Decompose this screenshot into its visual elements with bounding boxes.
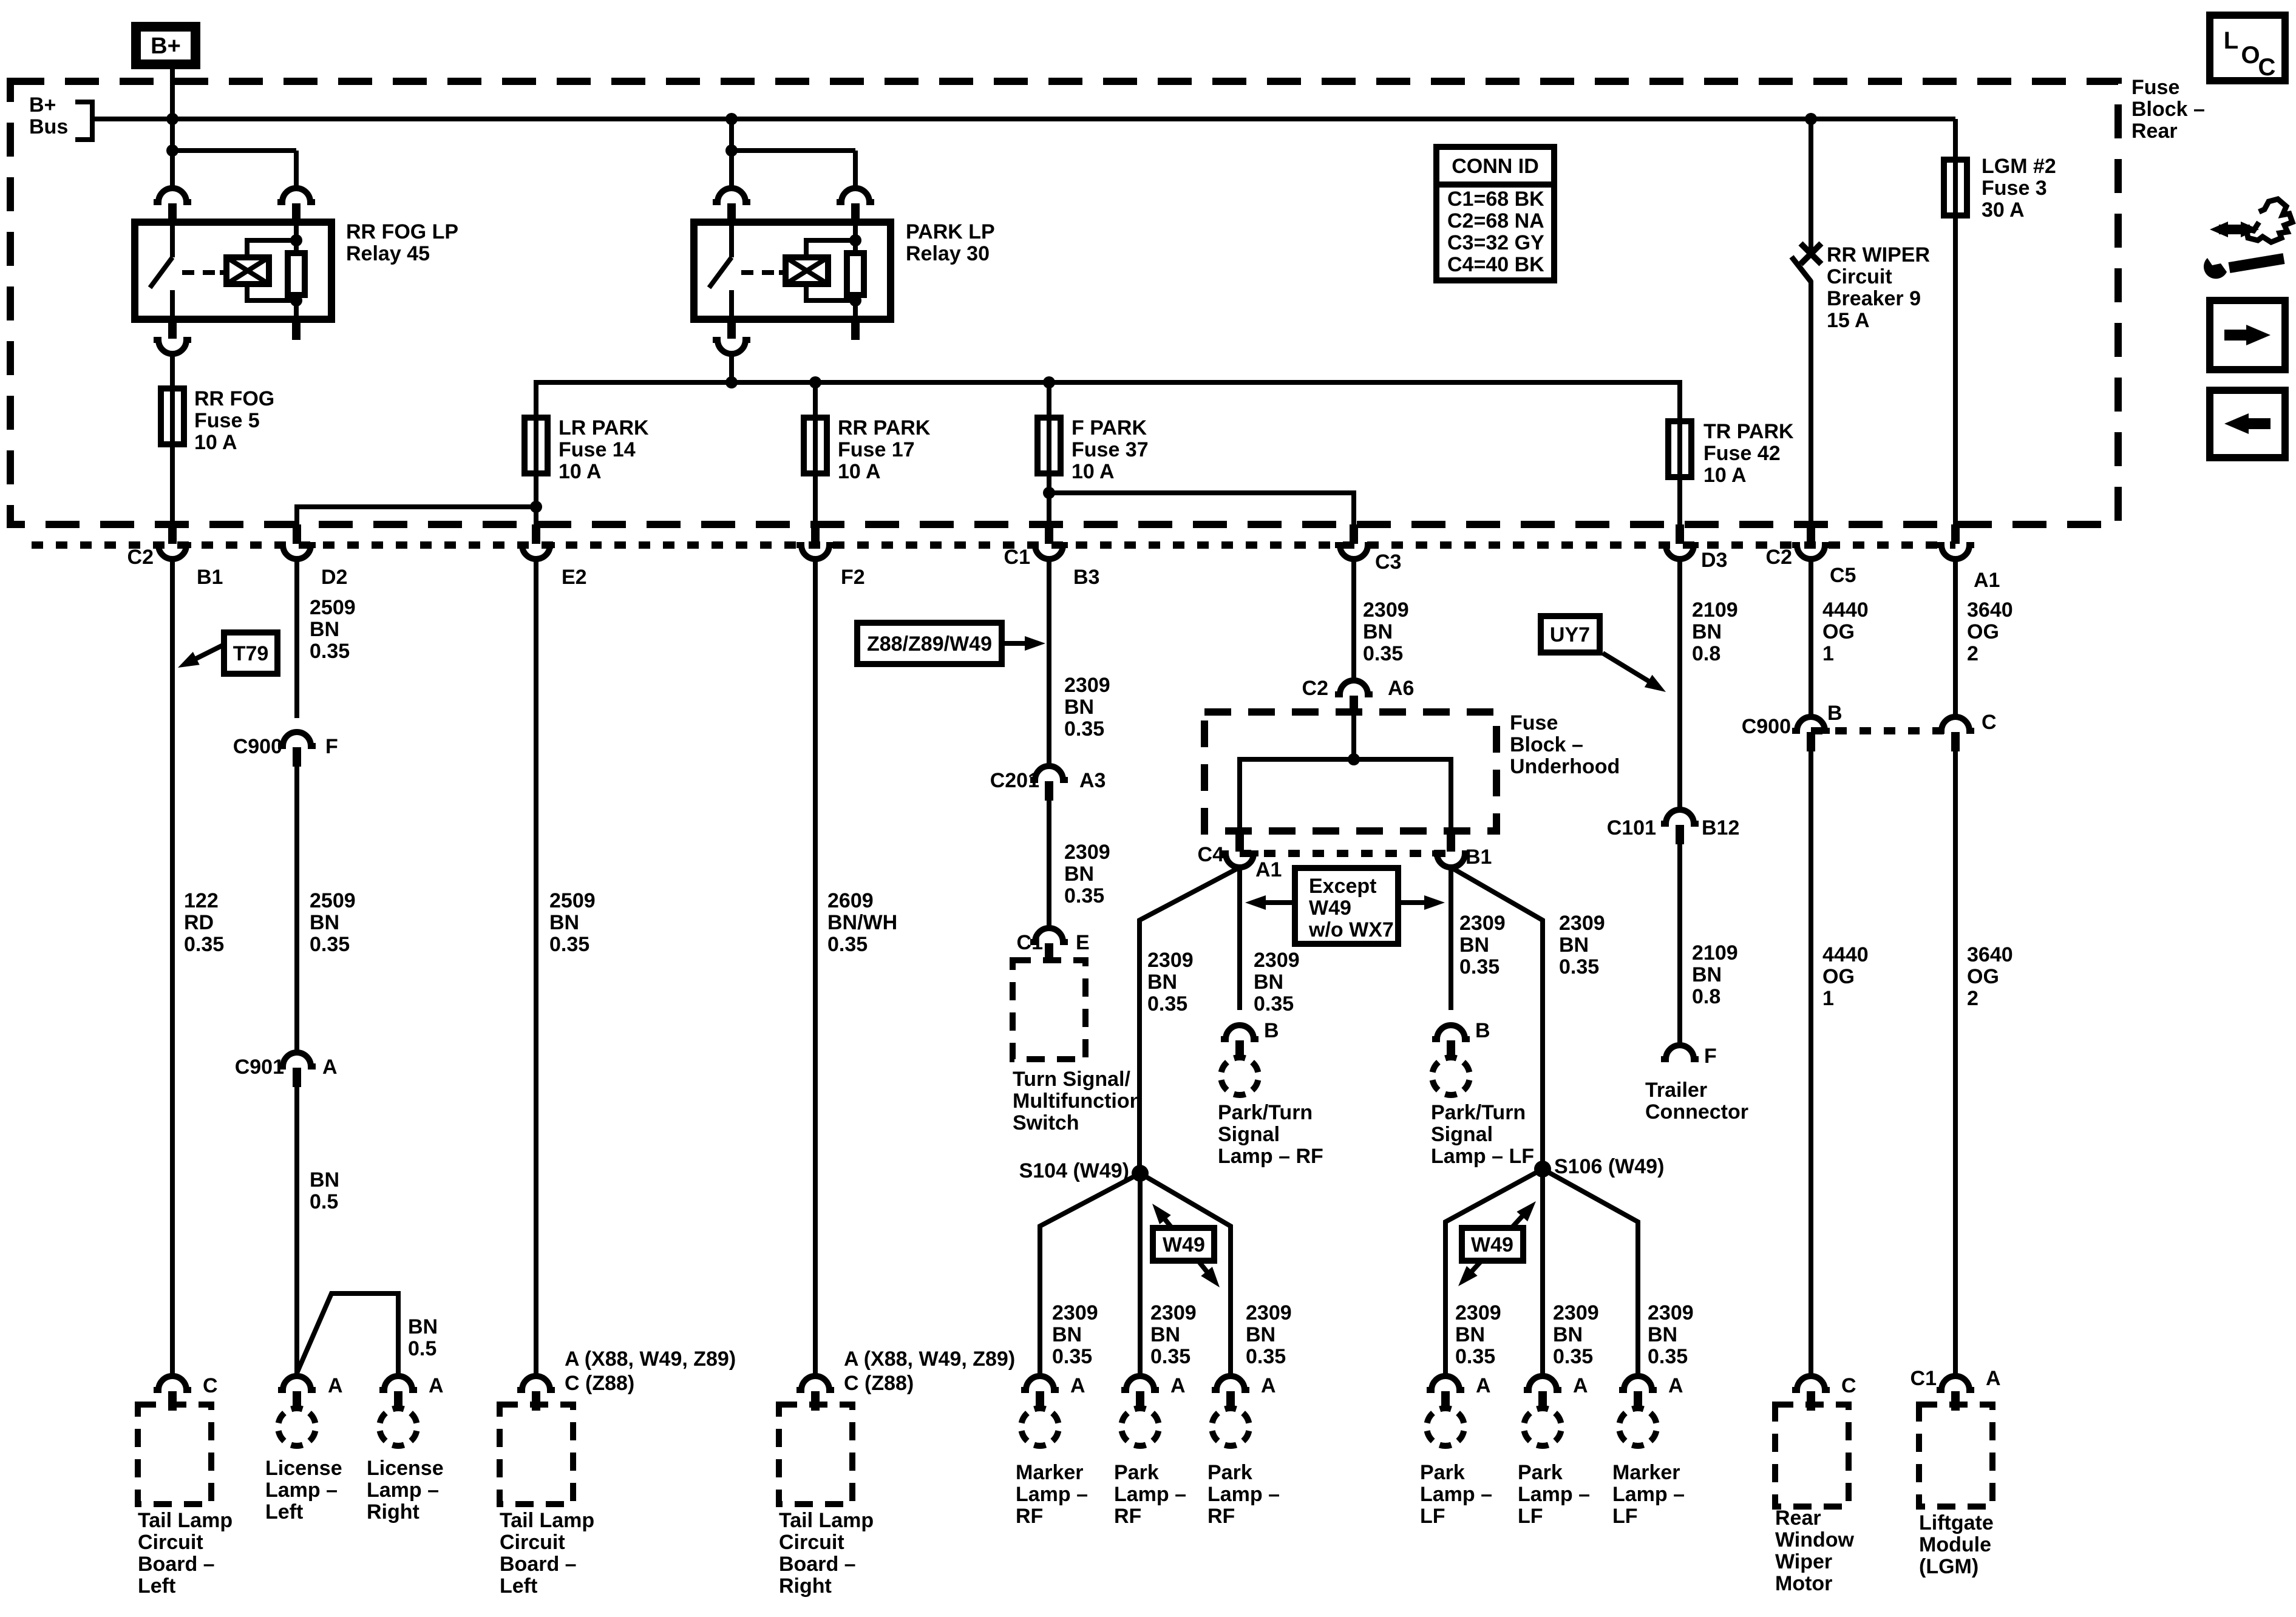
svg-text:LR PARK: LR PARK [559, 416, 649, 439]
wire - F2 to tail lamp circuit board right [813, 559, 818, 1375]
svg-text:C1: C1 [1004, 546, 1030, 569]
connector C1 pin E [1030, 928, 1068, 942]
wire - C3 to underhood fuse block [1351, 559, 1356, 680]
wire - relay branch from bus [170, 119, 175, 188]
svg-text:OG: OG [1822, 620, 1855, 643]
svg-text:A1: A1 [1255, 858, 1282, 881]
svg-text:LF: LF [1518, 1505, 1543, 1528]
wire - relay 45 to fuse 5 [170, 354, 175, 388]
svg-text:B3: B3 [1073, 566, 1099, 589]
svg-text:Circuit: Circuit [500, 1531, 565, 1554]
svg-text:Park/Turn: Park/Turn [1218, 1101, 1313, 1124]
svg-text:2309: 2309 [1553, 1301, 1599, 1324]
T79 option box with arrow [224, 632, 277, 674]
svg-text:S106 (W49): S106 (W49) [1554, 1155, 1664, 1178]
svg-text:Park: Park [1420, 1461, 1465, 1484]
svg-text:Lamp –: Lamp – [367, 1479, 439, 1502]
svg-text:Left: Left [500, 1575, 537, 1598]
svg-text:Tail Lamp: Tail Lamp [500, 1509, 594, 1532]
svg-text:Breaker 9: Breaker 9 [1827, 287, 1921, 310]
svg-text:Circuit: Circuit [779, 1531, 844, 1554]
svg-text:C1: C1 [1017, 931, 1043, 954]
liftgate module box [1919, 1405, 1992, 1507]
svg-text:Lamp –: Lamp – [1016, 1483, 1088, 1506]
svg-text:4440: 4440 [1822, 598, 1869, 622]
wire - C5 to rear window wiper motor [1809, 559, 1813, 717]
connector row dotted line [32, 541, 1955, 549]
svg-text:B+: B+ [29, 93, 56, 117]
wire - fuse 14 output [534, 473, 538, 526]
wire - C101 to trailer connector [1677, 844, 1682, 1046]
svg-text:Lamp – LF: Lamp – LF [1431, 1145, 1534, 1168]
svg-text:2309: 2309 [1254, 949, 1300, 972]
svg-text:2309: 2309 [1147, 949, 1194, 972]
svg-text:RR PARK: RR PARK [838, 416, 931, 439]
relay coil link (dashed) [182, 270, 225, 275]
dotted link C900 B-C [1811, 727, 1954, 734]
svg-text:10 A: 10 A [1703, 464, 1747, 487]
svg-text:Relay 30: Relay 30 [906, 242, 990, 265]
tail lamp circuit board right box [779, 1405, 852, 1504]
connector C4 pin A1 [1235, 832, 1244, 852]
svg-text:Tail Lamp: Tail Lamp [779, 1509, 874, 1532]
fuse 37 F PARK [1047, 418, 1051, 473]
relay case [694, 222, 891, 319]
svg-text:Lamp – RF: Lamp – RF [1218, 1145, 1323, 1168]
relay coil leads [247, 240, 296, 257]
svg-text:Fuse 37: Fuse 37 [1072, 438, 1149, 461]
svg-text:D3: D3 [1701, 549, 1727, 572]
svg-text:0.5: 0.5 [408, 1337, 436, 1360]
wire - bus to fuse 17 [813, 382, 818, 418]
svg-text:0.35: 0.35 [310, 640, 350, 663]
svg-text:Park/Turn: Park/Turn [1431, 1101, 1526, 1124]
wire - C201 to C1/E [1047, 801, 1051, 928]
svg-text:Multifunction: Multifunction [1013, 1090, 1142, 1113]
liftgate module connector C1 pin A [1937, 1376, 1974, 1390]
park lamp RF 2 connector pin A and lamp [1212, 1376, 1249, 1390]
svg-text:Underhood: Underhood [1510, 755, 1620, 778]
svg-text:A: A [1261, 1374, 1276, 1397]
svg-text:B: B [1264, 1019, 1279, 1042]
connector pin B1 [1447, 832, 1455, 852]
svg-text:C900: C900 [233, 735, 282, 758]
relay switch contact [729, 222, 734, 257]
wire - fuse 37 output [1047, 473, 1051, 526]
wire - bus to fuse 3 [1953, 119, 1958, 160]
svg-text:RF: RF [1016, 1505, 1043, 1528]
svg-text:C4: C4 [1198, 843, 1224, 866]
svg-text:BN: BN [310, 618, 339, 641]
node - split to D2 [530, 501, 542, 513]
svg-text:Board –: Board – [138, 1553, 215, 1576]
fuse 17 RR PARK [813, 418, 818, 473]
svg-text:0.35: 0.35 [1064, 717, 1104, 741]
park lamp RF connector pin A and lamp [1121, 1376, 1159, 1390]
svg-text:Module: Module [1919, 1533, 1991, 1556]
svg-text:0.35: 0.35 [1459, 955, 1500, 978]
svg-text:BN: BN [1064, 696, 1094, 719]
svg-text:2509: 2509 [310, 889, 356, 912]
svg-text:2309: 2309 [1052, 1301, 1098, 1324]
svg-text:C5: C5 [1830, 564, 1856, 587]
dotted link C4-B1 [1240, 850, 1451, 857]
svg-text:0.35: 0.35 [310, 933, 350, 956]
svg-text:Switch: Switch [1013, 1111, 1079, 1134]
svg-text:Circuit: Circuit [138, 1531, 203, 1554]
svg-text:2509: 2509 [310, 596, 356, 619]
relay coil [220, 270, 226, 275]
connector C1 pin B3 [1045, 524, 1053, 544]
tail lamp circuit board left box [138, 1405, 211, 1504]
license lamp right connector pin A and lamp [379, 1376, 417, 1390]
svg-text:2309: 2309 [1455, 1301, 1501, 1324]
svg-text:Liftgate: Liftgate [1919, 1511, 1994, 1534]
svg-text:B: B [1475, 1019, 1490, 1042]
wire - C900 to wiper motor [1809, 751, 1813, 1375]
svg-text:2309: 2309 [1648, 1301, 1694, 1324]
W49 option box with arrow (LF) [1464, 1208, 1530, 1280]
svg-text:Signal: Signal [1431, 1123, 1493, 1146]
svg-text:Relay 45: Relay 45 [346, 242, 430, 265]
svg-text:OG: OG [1967, 965, 1999, 988]
svg-text:BN: BN [1246, 1323, 1275, 1346]
svg-text:0.35: 0.35 [1363, 642, 1403, 665]
svg-text:Block –: Block – [1510, 733, 1583, 756]
svg-text:A: A [1668, 1374, 1683, 1397]
svg-text:0.35: 0.35 [1455, 1345, 1495, 1368]
connector C901 pin A [278, 1053, 316, 1066]
svg-text:UY7: UY7 [1550, 623, 1590, 646]
svg-text:BN: BN [1559, 934, 1589, 957]
svg-text:C2: C2 [1302, 677, 1328, 700]
B+ power symbol [136, 27, 195, 64]
svg-text:Lamp –: Lamp – [1420, 1483, 1492, 1506]
wire - park lamp feed bus [536, 382, 1680, 421]
connector pin C [1937, 717, 1974, 731]
svg-text:0.35: 0.35 [1064, 884, 1104, 907]
relay switch contact [170, 222, 175, 257]
svg-text:Block –: Block – [2131, 98, 2205, 121]
svg-text:A: A [1170, 1374, 1186, 1397]
turn signal / multifunction switch box [1013, 960, 1085, 1059]
svg-text:2109: 2109 [1692, 941, 1738, 964]
svg-text:Circuit: Circuit [1827, 265, 1892, 288]
svg-text:B1: B1 [197, 566, 223, 589]
node - bus junction for circuit breaker [1805, 113, 1817, 125]
svg-text:0.5: 0.5 [310, 1190, 338, 1213]
svg-text:Motor: Motor [1775, 1572, 1832, 1595]
svg-text:W49: W49 [1471, 1233, 1513, 1256]
tail lamp circuit board left 2 connector [517, 1376, 555, 1390]
svg-text:1: 1 [1822, 642, 1834, 665]
svg-text:Left: Left [265, 1500, 303, 1524]
svg-text:BN: BN [1254, 971, 1283, 994]
svg-text:Fuse 17: Fuse 17 [838, 438, 915, 461]
marker lamp RF connector pin A and lamp [1021, 1376, 1059, 1390]
wire - relay branch from bus [729, 119, 734, 188]
connector D3 [1676, 524, 1684, 544]
svg-text:C901: C901 [235, 1056, 284, 1079]
svg-text:Bus: Bus [29, 115, 68, 138]
svg-text:F PARK: F PARK [1072, 416, 1147, 439]
node - split to C3 [1043, 487, 1055, 499]
svg-text:A: A [1573, 1374, 1588, 1397]
wire - bus to fuse 37 [1047, 382, 1051, 418]
svg-text:C (Z88): C (Z88) [565, 1372, 634, 1395]
svg-text:CONN ID: CONN ID [1452, 155, 1539, 178]
svg-text:C (Z88): C (Z88) [844, 1372, 914, 1395]
svg-text:0.35: 0.35 [1246, 1345, 1286, 1368]
Z88/Z89/W49 option box with arrow [857, 623, 1002, 664]
svg-text:License: License [265, 1457, 342, 1480]
svg-text:122: 122 [184, 889, 219, 912]
Fuse Block - Rear dashed border [10, 81, 2118, 524]
svg-text:0.35: 0.35 [184, 933, 224, 956]
svg-text:RR FOG: RR FOG [194, 387, 274, 410]
svg-text:0.35: 0.35 [827, 933, 868, 956]
wire - to liftgate module [1953, 751, 1958, 1375]
svg-text:A6: A6 [1388, 677, 1414, 700]
svg-text:Marker: Marker [1016, 1461, 1084, 1484]
wire - B+ bus [91, 117, 1955, 121]
svg-text:LF: LF [1420, 1505, 1445, 1528]
svg-text:0.35: 0.35 [549, 933, 589, 956]
svg-text:w/o WX7: w/o WX7 [1308, 918, 1394, 941]
connector C2 pin A6 [1335, 680, 1373, 694]
relay resistor [294, 222, 299, 253]
circuit breaker 9 RR WIPER [1809, 119, 1813, 251]
park/turn signal lamp LF connector pin B and lamp [1432, 1025, 1470, 1039]
svg-text:A: A [322, 1056, 338, 1079]
svg-text:C: C [203, 1374, 218, 1397]
svg-text:TR PARK: TR PARK [1703, 420, 1794, 443]
wire - S104 fan out [1040, 1173, 1140, 1375]
fuse 5 RR FOG [170, 388, 175, 444]
svg-text:BN: BN [1147, 971, 1177, 994]
svg-text:Trailer: Trailer [1645, 1079, 1707, 1102]
svg-text:Lamp –: Lamp – [1518, 1483, 1590, 1506]
svg-text:Right: Right [367, 1500, 419, 1524]
svg-text:C1: C1 [1911, 1367, 1937, 1390]
wire - B1 branch to S106 [1451, 867, 1543, 1169]
svg-text:E: E [1076, 931, 1090, 954]
connector E2 [532, 524, 540, 544]
wire - B1 to tail lamp circuit board left [170, 559, 175, 1375]
svg-text:C3=32 GY: C3=32 GY [1447, 231, 1544, 254]
svg-text:Rear: Rear [1775, 1507, 1821, 1530]
splice S104 (W49) [1132, 1165, 1149, 1182]
svg-text:30 A: 30 A [1982, 198, 2025, 222]
svg-text:C101: C101 [1607, 816, 1656, 839]
svg-text:BN: BN [1363, 620, 1393, 643]
svg-text:2309: 2309 [1459, 912, 1506, 935]
svg-text:BN/WH: BN/WH [827, 911, 897, 934]
svg-text:A: A [429, 1374, 444, 1397]
svg-text:W49: W49 [1163, 1233, 1205, 1256]
svg-text:Z88/Z89/W49: Z88/Z89/W49 [867, 632, 992, 656]
relay case [135, 222, 331, 319]
svg-text:BN: BN [549, 911, 579, 934]
svg-text:Connector: Connector [1645, 1100, 1748, 1124]
svg-text:C2: C2 [1766, 546, 1792, 569]
svg-text:BN: BN [1459, 934, 1489, 957]
svg-text:10 A: 10 A [838, 460, 881, 483]
LOC reference box [2210, 15, 2285, 81]
svg-text:Rear: Rear [2131, 120, 2178, 143]
connector C201 pin A3 [1030, 766, 1068, 780]
svg-text:Lamp –: Lamp – [1612, 1483, 1685, 1506]
wire - underhood internal split [1351, 715, 1356, 759]
svg-text:10 A: 10 A [1072, 460, 1115, 483]
relay coil [779, 270, 786, 275]
relay bottom pins [168, 319, 177, 339]
svg-text:B1: B1 [1466, 846, 1492, 869]
svg-text:2309: 2309 [1064, 674, 1110, 697]
wire - B3 to turn signal switch [1047, 559, 1051, 766]
svg-text:W49: W49 [1309, 897, 1351, 920]
svg-text:Board –: Board – [779, 1553, 856, 1576]
svg-text:Park: Park [1207, 1461, 1252, 1484]
svg-text:Tail Lamp: Tail Lamp [138, 1509, 233, 1532]
wire - fuse 42 to connector D3 [1677, 477, 1682, 526]
wire - D2 to license lamps [294, 559, 299, 718]
wire - A1 branch to S104 [1140, 867, 1240, 1173]
relay resistor [853, 222, 858, 253]
svg-text:F2: F2 [841, 566, 865, 589]
svg-text:0.35: 0.35 [1559, 955, 1599, 978]
svg-text:A: A [1070, 1374, 1085, 1397]
svg-text:0.8: 0.8 [1692, 642, 1720, 665]
svg-text:2309: 2309 [1246, 1301, 1292, 1324]
service icon - double arrow, vehicle outline and wrench [2219, 225, 2250, 234]
wire - B+ feed into fuse block [170, 69, 175, 188]
svg-text:A: A [1476, 1374, 1491, 1397]
svg-text:Except: Except [1309, 875, 1377, 898]
svg-text:4440: 4440 [1822, 943, 1869, 966]
connector C900 pin B [1792, 717, 1830, 731]
svg-text:BN: BN [1553, 1323, 1583, 1346]
svg-text:C1=68 BK: C1=68 BK [1447, 188, 1544, 211]
fuse 14 LR PARK [534, 418, 538, 473]
wire - S106 fan out [1445, 1169, 1543, 1375]
svg-text:Fuse 3: Fuse 3 [1982, 177, 2047, 200]
svg-text:2109: 2109 [1692, 598, 1738, 622]
svg-text:C2: C2 [127, 546, 154, 569]
svg-text:C201: C201 [990, 769, 1039, 792]
relay bottom pins [727, 319, 736, 339]
wire - C900 to C901 [294, 767, 299, 1053]
svg-text:Fuse 42: Fuse 42 [1703, 442, 1781, 465]
svg-text:LF: LF [1612, 1505, 1638, 1528]
svg-text:B12: B12 [1702, 816, 1739, 839]
fuse 3 LGM #2 [1953, 160, 1958, 215]
park lamp LF 2 connector pin A and lamp [1524, 1376, 1561, 1390]
park lamp LF connector pin A and lamp [1427, 1376, 1464, 1390]
park/turn signal lamp RF connector pin B and lamp [1221, 1025, 1258, 1039]
svg-text:C3: C3 [1375, 551, 1401, 574]
svg-text:2309: 2309 [1150, 1301, 1197, 1324]
svg-text:BN: BN [1455, 1323, 1485, 1346]
rear window wiper motor box [1775, 1405, 1849, 1507]
svg-text:A3: A3 [1079, 769, 1106, 792]
svg-text:S104 (W49): S104 (W49) [1019, 1159, 1129, 1182]
wire - branch to license lamp right [297, 1293, 398, 1375]
svg-text:F: F [325, 735, 338, 758]
navigation arrow box - right [2210, 300, 2285, 370]
svg-text:C: C [2258, 54, 2276, 81]
svg-text:2309: 2309 [1064, 841, 1110, 864]
wire - D3 to trailer connector [1677, 559, 1682, 810]
svg-text:0.35: 0.35 [1052, 1345, 1092, 1368]
connector C2 pin B1 [168, 524, 177, 544]
connector F2 [811, 524, 820, 544]
wire - relay 30 to park lamp bus [729, 354, 734, 382]
Except W49 w/o WX7 option box with arrows [1254, 900, 1295, 905]
svg-text:License: License [367, 1457, 444, 1480]
svg-text:3640: 3640 [1967, 598, 2013, 622]
svg-text:BN: BN [1064, 863, 1094, 886]
svg-text:(LGM): (LGM) [1919, 1555, 1978, 1578]
svg-text:0.35: 0.35 [1147, 992, 1187, 1015]
svg-text:2309: 2309 [1559, 912, 1605, 935]
wire - branch to connector C3 [1049, 493, 1354, 526]
svg-text:LGM #2: LGM #2 [1982, 155, 2056, 178]
relay top pin connectors [154, 188, 191, 202]
node - bus junction at B+ feed [166, 113, 178, 125]
svg-text:Wiper: Wiper [1775, 1550, 1832, 1573]
svg-text:15 A: 15 A [1827, 309, 1870, 332]
fuse 42 TR PARK [1677, 421, 1682, 477]
svg-text:0.8: 0.8 [1692, 985, 1720, 1008]
svg-text:RF: RF [1114, 1505, 1141, 1528]
svg-text:0.35: 0.35 [1150, 1345, 1190, 1368]
svg-text:Fuse 5: Fuse 5 [194, 409, 260, 432]
svg-text:BN: BN [310, 1168, 339, 1192]
tail lamp circuit board left 2 box [500, 1405, 573, 1504]
connector C900 pin F [278, 732, 316, 746]
svg-text:B+: B+ [151, 33, 181, 59]
UY7 option box with arrow [1541, 616, 1600, 653]
tail lamp circuit board right connector [796, 1376, 834, 1390]
svg-text:D2: D2 [321, 566, 347, 589]
svg-text:BN: BN [1052, 1323, 1082, 1346]
connector C3 [1350, 524, 1358, 544]
node - bus junction for relay 30 [725, 113, 738, 125]
svg-text:Park: Park [1518, 1461, 1563, 1484]
svg-text:Fuse 14: Fuse 14 [559, 438, 636, 461]
CONN ID table [1436, 147, 1554, 280]
wire - fuse 17 to connector F2 [813, 473, 818, 526]
wire - A1 to park/turn signal lamp RF [1237, 867, 1242, 1010]
svg-text:Board –: Board – [500, 1553, 577, 1576]
wire - fuse 5 to connector C2/B1 [170, 444, 175, 526]
svg-text:Marker: Marker [1612, 1461, 1680, 1484]
svg-text:OG: OG [1822, 965, 1855, 988]
connector C2 pin C5 [1807, 524, 1815, 544]
svg-text:A: A [1986, 1367, 2001, 1390]
svg-text:C900: C900 [1742, 715, 1791, 738]
rear window wiper motor connector pin C [1792, 1376, 1830, 1390]
svg-text:10 A: 10 A [559, 460, 602, 483]
svg-text:C: C [1982, 711, 1997, 734]
svg-text:Fuse: Fuse [1510, 711, 1558, 734]
svg-text:O: O [2241, 42, 2260, 69]
wire - branch to connector D2 [297, 507, 536, 526]
svg-text:BN: BN [408, 1315, 438, 1338]
svg-text:BN: BN [1692, 620, 1722, 643]
wire - E2 to tail lamp circuit board left 2 [534, 559, 538, 1375]
